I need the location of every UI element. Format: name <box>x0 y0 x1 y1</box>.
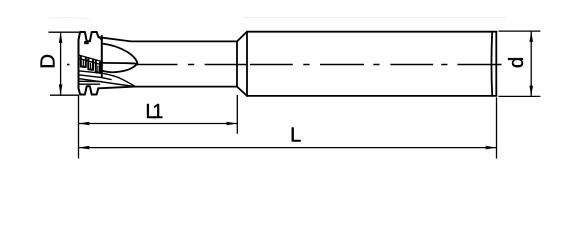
dimension D line <box>60 32 62 95</box>
dimension D extension lines <box>49 32 85 95</box>
lower flute lines <box>79 71 136 87</box>
cutter body bottom silhouette <box>98 87 237 89</box>
dimension D arrows <box>59 32 63 95</box>
shank end chamfer <box>490 32 493 96</box>
dimension L arrows <box>79 146 497 150</box>
cutter body top silhouette <box>99 37 238 41</box>
shank front edge <box>246 32 248 96</box>
shank end face <box>495 32 497 96</box>
flute lower arc <box>102 63 138 72</box>
centerline <box>67 64 502 66</box>
thread profile on face: diagonals <box>79 55 102 65</box>
L extension line right <box>496 98 498 158</box>
svg-text:D: D <box>37 54 60 69</box>
dimension d line <box>530 31 532 96</box>
dimension L1 arrows <box>79 122 238 126</box>
left extension line shared by L1 and L <box>78 96 80 159</box>
L1 extension line right <box>236 96 238 134</box>
flute front vertical edge <box>101 36 103 77</box>
dimension L line <box>79 147 497 149</box>
neck rear edge <box>236 41 238 86</box>
svg-text:L1: L1 <box>145 101 163 123</box>
thread profile crest marks <box>83 61 98 72</box>
thread profile on face: tooth 3 <box>96 61 100 73</box>
flute wedge line below tooth 2 <box>98 36 102 40</box>
taper to shank <box>237 32 247 96</box>
ghost artifact mark top left <box>48 18 90 19</box>
ghost artifact line top <box>243 17 505 19</box>
flute cutting edge <box>102 62 138 65</box>
upper flute leaf outer arc <box>102 44 138 64</box>
thread profile root mark below top teeth valley <box>84 41 89 44</box>
cutter head left face edge <box>78 40 80 88</box>
thread profile on face: tooth 2 <box>88 58 93 70</box>
thread profile on face: tooth 1 <box>81 56 86 67</box>
svg-text:L: L <box>290 125 301 147</box>
cutter head bottom thread teeth <box>79 86 99 94</box>
shank body <box>247 32 497 96</box>
cutter head top thread teeth <box>79 32 99 41</box>
dimension L1 line <box>79 123 238 125</box>
svg-text:d: d <box>505 57 528 68</box>
dimension d extension lines <box>499 31 541 96</box>
dimension d arrows <box>529 31 533 96</box>
